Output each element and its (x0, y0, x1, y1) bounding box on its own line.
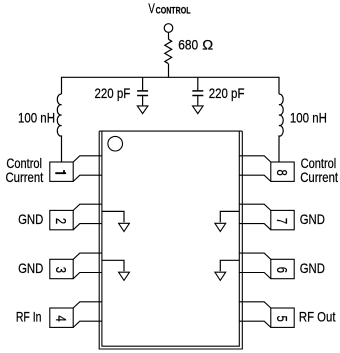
svg-text:100 nH: 100 nH (18, 109, 55, 125)
svg-text:CONTROL: CONTROL (156, 6, 191, 16)
svg-text:3: 3 (52, 267, 69, 273)
svg-text:4: 4 (52, 315, 69, 321)
svg-text:GND: GND (300, 260, 325, 277)
svg-text:2: 2 (52, 218, 69, 224)
svg-text:220 pF: 220 pF (209, 85, 245, 101)
svg-text:Ω: Ω (202, 38, 213, 54)
svg-text:Current: Current (5, 169, 43, 186)
svg-text:V: V (148, 0, 154, 16)
svg-text:7: 7 (273, 218, 290, 224)
svg-text:RF In: RF In (16, 309, 42, 325)
svg-text:8: 8 (273, 169, 290, 175)
svg-text:680: 680 (178, 37, 198, 53)
svg-text:GND: GND (300, 211, 325, 228)
svg-text:100 nH: 100 nH (290, 109, 327, 125)
svg-text:6: 6 (273, 267, 290, 273)
svg-text:5: 5 (273, 315, 290, 321)
svg-text:220 pF: 220 pF (95, 85, 131, 101)
svg-text:GND: GND (18, 260, 43, 277)
svg-text:Current: Current (300, 169, 338, 186)
svg-text:GND: GND (18, 211, 43, 228)
svg-text:RF Out: RF Out (299, 308, 336, 325)
